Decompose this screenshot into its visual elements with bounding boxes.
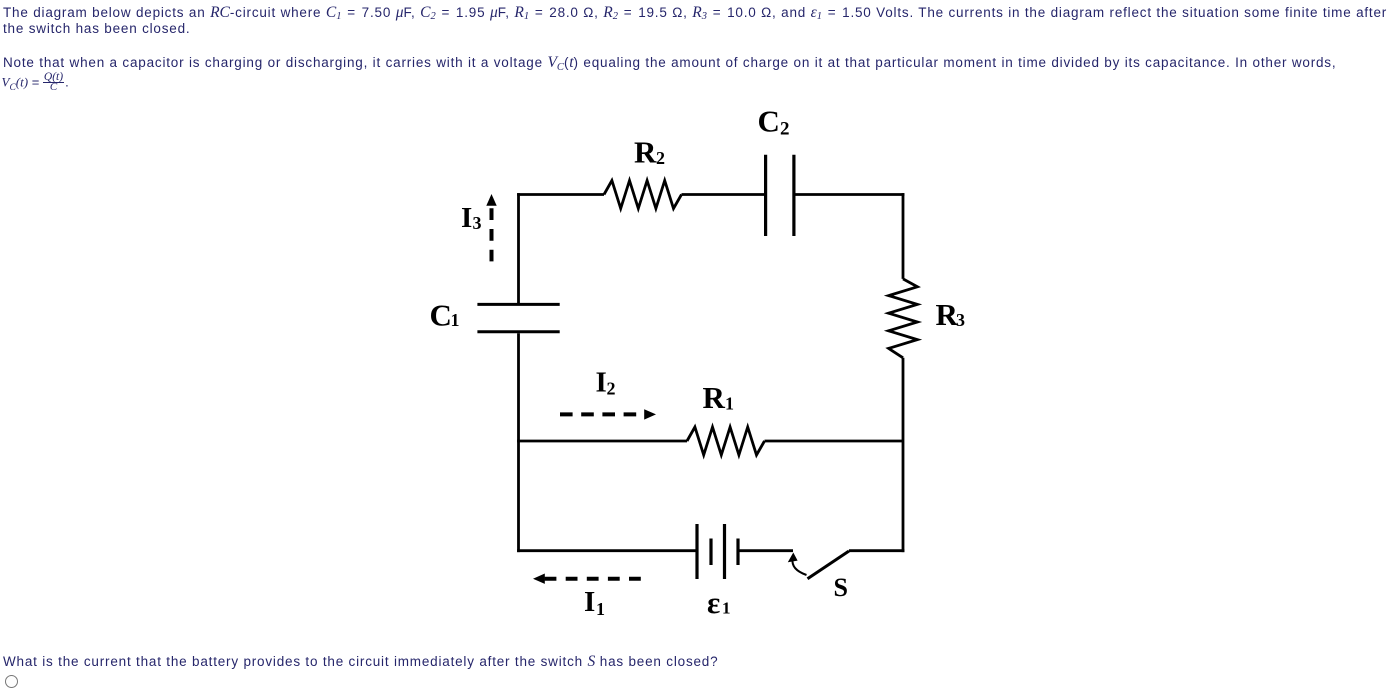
- svg-text:3: 3: [956, 310, 966, 330]
- svg-text:1: 1: [722, 599, 731, 618]
- svg-text:ε: ε: [707, 585, 721, 620]
- current arrow I1 (dashed, left): [545, 577, 643, 581]
- svg-text:2: 2: [607, 379, 617, 399]
- resistor R1: [687, 427, 765, 455]
- resistor R2: [604, 181, 682, 209]
- battery E1: [697, 524, 725, 579]
- capacitor C2: [766, 155, 794, 236]
- svg-text:I: I: [461, 202, 473, 234]
- current arrow I3 (dashed, up): [490, 208, 494, 264]
- current arrow I2 (dashed, right): [560, 412, 636, 416]
- wire left vertical lower: [517, 333, 520, 552]
- svg-text:2: 2: [780, 119, 790, 140]
- paragraph 2: [3, 55, 1336, 74]
- wire left-top vertical: [517, 193, 520, 303]
- paragraph 1: [3, 6, 1387, 37]
- wire top left segment: [517, 193, 604, 196]
- svg-text:C: C: [430, 298, 453, 333]
- svg-text:C: C: [758, 103, 781, 138]
- switch S blade: [808, 551, 850, 579]
- wire right vertical lower: [902, 358, 905, 552]
- wire top mid segment: [682, 193, 766, 196]
- svg-text:R: R: [634, 135, 657, 170]
- wire middle rail left: [517, 440, 687, 443]
- capacitor C1: [477, 304, 559, 331]
- svg-text:R: R: [703, 380, 726, 415]
- wire bottom right segment: [849, 549, 904, 552]
- svg-text:2: 2: [656, 148, 666, 168]
- wire right vertical upper: [902, 193, 905, 279]
- wire bottom left segment: [517, 549, 697, 552]
- svg-text:1: 1: [596, 599, 606, 619]
- svg-text:I: I: [584, 586, 596, 618]
- formula VC(t)=Q(t)/C: [2, 73, 69, 94]
- wire middle rail right: [765, 440, 904, 443]
- radio button: [5, 675, 18, 688]
- wire top right segment: [794, 193, 905, 196]
- svg-text:1: 1: [451, 310, 461, 330]
- svg-text:S: S: [834, 573, 849, 602]
- svg-text:1: 1: [725, 394, 735, 414]
- wire bottom mid segment: [738, 549, 793, 552]
- switch S closing arrow: [792, 559, 806, 575]
- resistor R3: [889, 279, 918, 358]
- question: [3, 653, 718, 671]
- svg-text:3: 3: [473, 213, 483, 233]
